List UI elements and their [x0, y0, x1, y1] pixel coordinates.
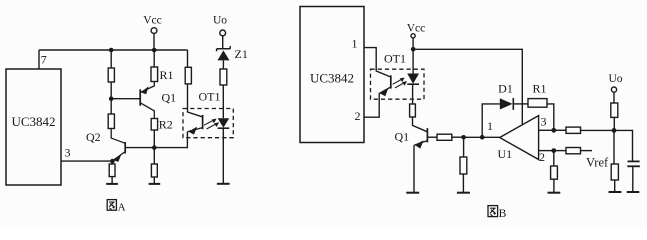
wire resistor to Uo node: [613, 117, 615, 130]
wire Z1 to resistor: [222, 60, 224, 69]
resistor (divider lower): [460, 157, 467, 174]
wire node to D1 branch node: [464, 136, 483, 138]
resistor R2 (figure A): [151, 117, 173, 131]
resistor (Uo lower): [611, 164, 618, 180]
optocoupler OT1 (figure B): [371, 52, 425, 100]
ground (Uo divider): [609, 191, 622, 193]
LED inside OT1 (figure B): [407, 74, 419, 85]
svg-text:OT1: OT1: [384, 52, 406, 66]
wire node down to resistor: [463, 137, 465, 157]
caption 图B: [488, 206, 507, 220]
node Q2 emitter junction: [110, 159, 115, 164]
svg-text:Vcc: Vcc: [407, 23, 426, 35]
transistor Q2 (figure A): [86, 129, 125, 162]
svg-text:OT1: OT1: [199, 89, 221, 103]
ground (Q1 emitter): [406, 192, 419, 194]
wire rail drop to OT1 resistor: [187, 50, 189, 67]
wire pin 2 to phototransistor emitter: [364, 93, 379, 117]
ground (left chain, figure A): [106, 183, 118, 185]
terminal Uo (figure B): [608, 73, 622, 103]
node below R2: [152, 145, 157, 150]
svg-text:2: 2: [539, 150, 545, 164]
wire resistor to Q1 collector: [413, 117, 428, 132]
svg-text:2: 2: [355, 109, 361, 123]
node divider junction: [461, 135, 466, 140]
wire Uo node to capacitor: [614, 130, 633, 161]
svg-text:UC3842: UC3842: [310, 71, 354, 86]
wire capacitor to ground: [632, 167, 634, 192]
wire pin 7 riser: [38, 50, 40, 70]
wire Vcc to LED: [412, 49, 414, 73]
svg-text:Q2: Q2: [86, 130, 101, 144]
wire node to resistor: [111, 161, 113, 164]
resistor (below Q2 emitter): [109, 164, 115, 177]
wire left chain to base node: [110, 82, 112, 99]
svg-text:Vref: Vref: [586, 156, 609, 170]
wire resistor to ground: [553, 179, 555, 192]
resistor (below R2 node): [151, 164, 157, 177]
wire pin 2: [539, 150, 554, 152]
node junction rail / left resistor chain: [109, 48, 114, 53]
svg-text:Q1: Q1: [395, 129, 410, 143]
svg-text:Uo: Uo: [213, 15, 227, 27]
resistor (pin 2 pulldown): [551, 166, 558, 179]
node output junction: [551, 128, 556, 133]
svg-text:Vcc: Vcc: [143, 15, 162, 27]
wire base node down: [110, 99, 112, 114]
wire node to resistor: [554, 129, 566, 131]
svg-text:Z1: Z1: [235, 47, 248, 61]
resistor R1 (figure A): [151, 67, 174, 82]
wire pin 3 output: [539, 129, 554, 131]
zener diode Z1: [217, 46, 248, 61]
wire pin 1 to phototransistor collector: [364, 48, 391, 77]
resistor (Uo upper): [611, 103, 618, 117]
svg-text:B: B: [499, 208, 507, 220]
LED inside OT1 (figure A): [218, 118, 230, 128]
wire left chain upper: [110, 50, 112, 68]
resistor (Vref, horizontal): [566, 148, 581, 154]
wire D1 to R1: [513, 103, 528, 105]
wire top supply rail (figure A): [39, 49, 188, 51]
wire rail to R1: [153, 50, 155, 67]
resistor (Uo chain, figure A): [220, 69, 227, 85]
svg-text:A: A: [118, 202, 126, 214]
wire resistor into OT1 LED: [222, 85, 224, 118]
wire Q1 base: [111, 98, 140, 100]
svg-text:U1: U1: [498, 147, 513, 161]
node Uo junction: [612, 128, 617, 133]
resistor (Q1 base, horizontal): [437, 134, 452, 140]
wire R1 down to output node: [547, 104, 554, 130]
resistor (Q1 collector chain): [410, 104, 416, 117]
wire resistor to ground: [614, 180, 616, 192]
wire resistor to Uo node: [581, 129, 615, 131]
node junction rail / Vcc: [152, 48, 157, 53]
resistor (output, horizontal): [566, 127, 581, 133]
wire Uo node down: [613, 130, 615, 164]
ground (OT1 LED, figure A): [217, 183, 230, 185]
transistor Q1 (PNP): [140, 82, 176, 119]
svg-text:R2: R2: [159, 117, 173, 131]
wire pin 2 node down: [553, 151, 555, 166]
svg-text:R1: R1: [160, 68, 174, 82]
ground (right chain, figure A): [149, 183, 161, 185]
IC UC3842 (figure A): [6, 69, 61, 185]
ground (capacitor): [627, 191, 640, 193]
wire resistor to ground: [462, 174, 464, 192]
IC UC3842 (figure B): [300, 7, 364, 143]
wire node down: [153, 148, 155, 164]
svg-text:UC3842: UC3842: [11, 114, 55, 129]
svg-text:7: 7: [41, 53, 47, 67]
node pin 2 junction: [551, 148, 556, 153]
wire resistor to phototransistor collector: [188, 84, 203, 117]
resistor R1 (figure B, horizontal): [528, 81, 547, 107]
ground (pin 2 pulldown): [548, 192, 561, 194]
wire R2 to node: [153, 130, 155, 148]
capacitor C: [627, 161, 640, 166]
svg-text:3: 3: [65, 146, 71, 160]
wire resistor to ground: [111, 177, 113, 184]
wire Q2 base: [125, 147, 154, 149]
node Vcc junction: [411, 47, 416, 52]
op-amp U1: [487, 115, 547, 165]
svg-text:Q1: Q1: [162, 91, 177, 105]
svg-text:1: 1: [352, 37, 358, 51]
svg-text:D1: D1: [498, 81, 513, 95]
resistor (left chain top): [108, 68, 114, 82]
node Q1 base junction: [109, 96, 114, 101]
wire LED to ground: [222, 128, 224, 183]
Vcc terminal (figure B): [407, 23, 426, 50]
resistor (OT1 input, figure A): [185, 67, 191, 84]
wire LED to resistor: [412, 84, 414, 104]
wire pin 3: [61, 160, 112, 162]
ground (divider): [457, 192, 470, 194]
transistor Q1 (figure B): [395, 128, 428, 149]
optocoupler OT1 (figure A): [183, 89, 233, 137]
wire node to resistor: [554, 150, 566, 152]
wire resistor to Vref: [581, 150, 593, 152]
diode D1: [498, 81, 513, 110]
svg-text:1: 1: [487, 119, 493, 133]
resistor (left chain middle): [108, 114, 114, 129]
wire branch riser to D1: [482, 104, 500, 137]
caption 图A: [107, 200, 125, 214]
Vcc terminal (figure A): [143, 15, 162, 51]
svg-text:Uo: Uo: [608, 73, 622, 85]
wire Vcc rail to op-amp supply: [413, 49, 522, 125]
svg-text:3: 3: [541, 115, 547, 129]
svg-text:R1: R1: [532, 81, 546, 95]
wire resistor to ground: [153, 177, 155, 184]
node D1 branch: [480, 135, 485, 140]
wire OT1 emitter to node below R2: [154, 132, 187, 148]
wire Q1 base: [427, 136, 437, 138]
wire resistor to divider node: [452, 136, 464, 138]
wire Q1 emitter to ground: [413, 145, 415, 192]
wire input node to op-amp: [482, 136, 500, 138]
terminal Uo (figure A): [213, 15, 227, 49]
